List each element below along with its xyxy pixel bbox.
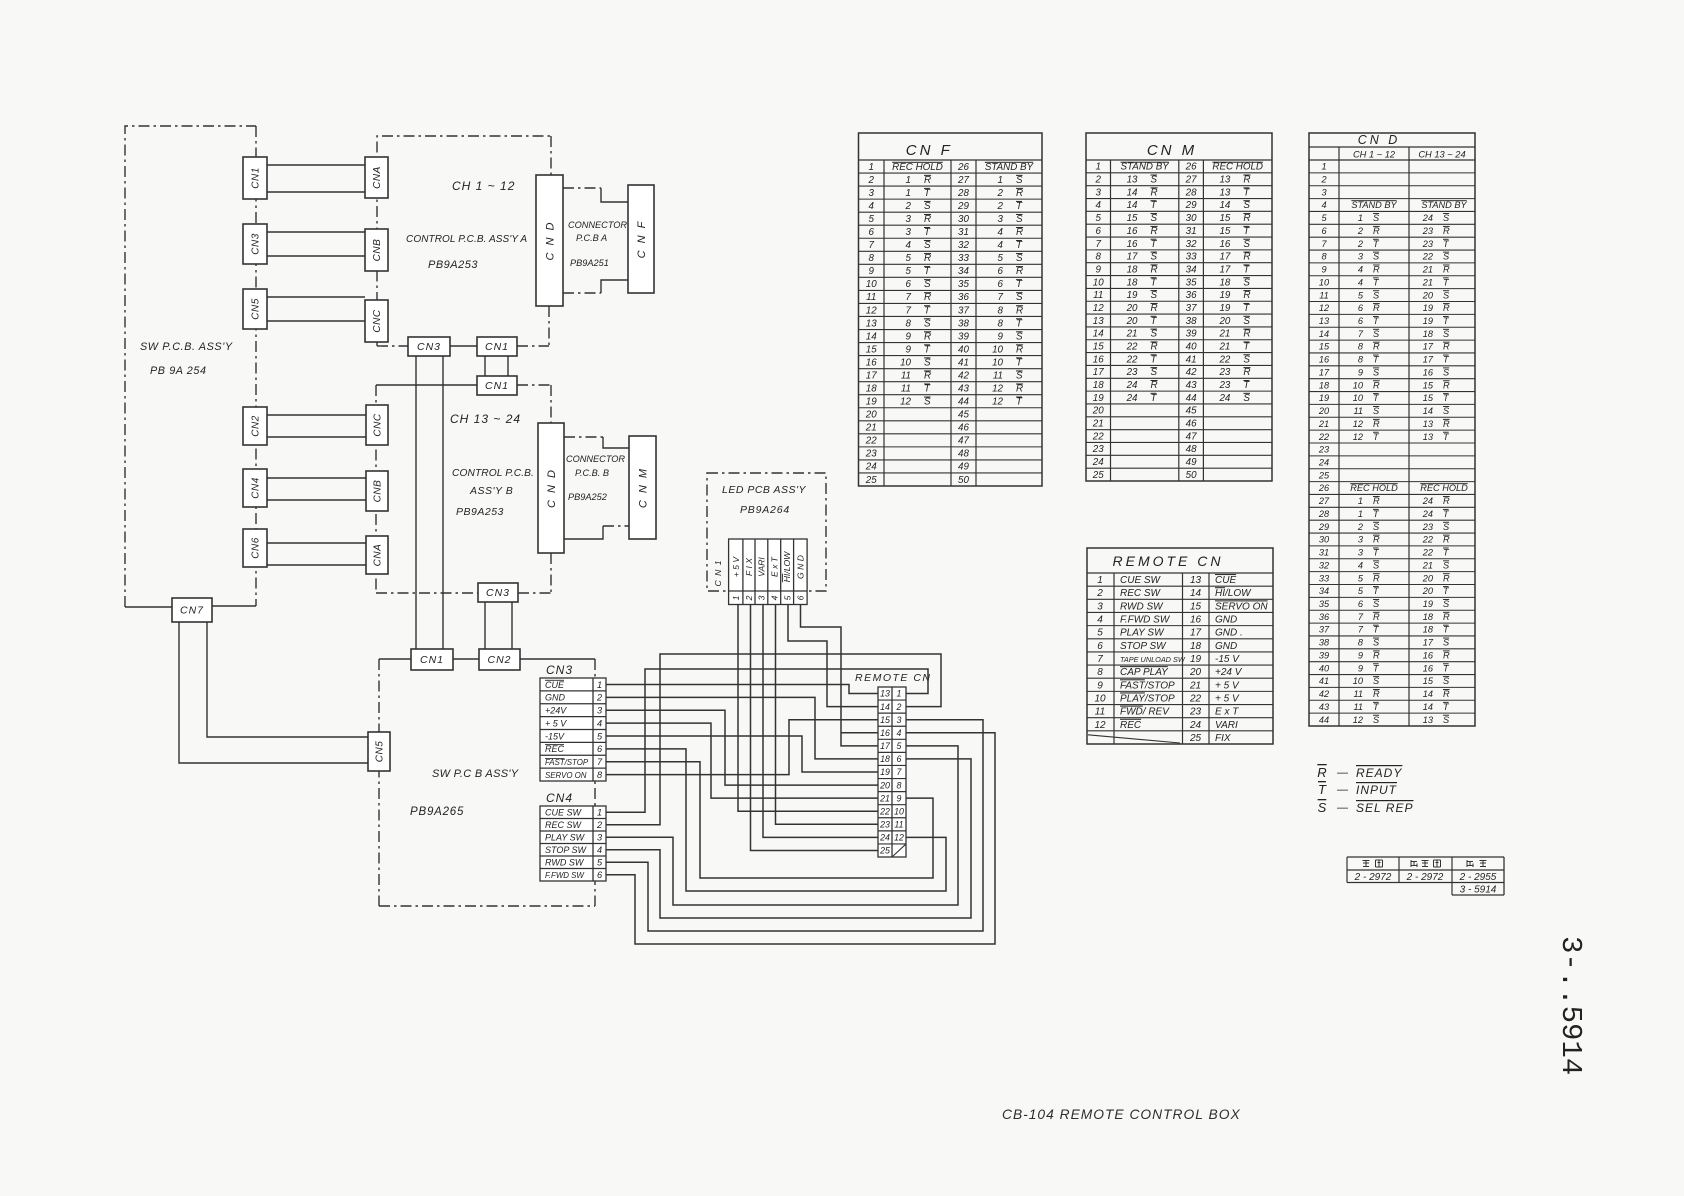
svg-text:24: 24 <box>1189 720 1202 731</box>
svg-text:15: 15 <box>1423 393 1434 403</box>
svg-text:R: R <box>1151 187 1158 198</box>
svg-text:7: 7 <box>1096 239 1102 250</box>
svg-text:17: 17 <box>1423 355 1434 365</box>
svg-text:21: 21 <box>1092 419 1104 430</box>
svg-text:21: 21 <box>1422 277 1433 287</box>
svg-text:7: 7 <box>906 292 912 303</box>
svg-text:6: 6 <box>1096 226 1102 237</box>
svg-text:RWD SW: RWD SW <box>545 858 585 868</box>
svg-text:9: 9 <box>897 793 902 803</box>
svg-text:20: 20 <box>1189 667 1202 678</box>
svg-text:CB-104 REMOTE CONTROL BOX: CB-104 REMOTE CONTROL BOX <box>1002 1107 1241 1122</box>
svg-text:S: S <box>1151 290 1158 301</box>
svg-text:10: 10 <box>1319 277 1330 287</box>
svg-text:C N D: C N D <box>546 468 558 508</box>
svg-text:19: 19 <box>1423 303 1433 313</box>
svg-text:20: 20 <box>1126 316 1138 327</box>
svg-text:12: 12 <box>1094 720 1106 731</box>
svg-text:7: 7 <box>597 757 603 767</box>
svg-text:VARI: VARI <box>756 557 766 577</box>
svg-text:R: R <box>1243 290 1250 301</box>
svg-text:S: S <box>1243 277 1250 288</box>
svg-text:+24V: +24V <box>545 706 567 716</box>
svg-text:12: 12 <box>1353 715 1363 725</box>
svg-text:FIX: FIX <box>1215 733 1231 744</box>
svg-text:17: 17 <box>1423 342 1434 352</box>
svg-text:S: S <box>1373 522 1380 532</box>
svg-text:38: 38 <box>1319 638 1330 648</box>
svg-text:S: S <box>1016 292 1023 303</box>
svg-text:40: 40 <box>1186 341 1197 352</box>
svg-text:S: S <box>1443 213 1450 223</box>
svg-text:R: R <box>1443 496 1450 506</box>
svg-text:STOP SW: STOP SW <box>545 845 588 855</box>
svg-text:STAND BY: STAND BY <box>985 162 1035 173</box>
svg-text:15: 15 <box>1219 226 1230 237</box>
svg-text:6: 6 <box>1358 303 1364 313</box>
svg-text:S: S <box>924 357 931 368</box>
svg-text:R: R <box>1443 612 1450 622</box>
svg-text:S: S <box>1243 200 1250 211</box>
svg-text:9: 9 <box>1358 650 1363 660</box>
svg-text:11: 11 <box>894 820 903 830</box>
svg-text:26: 26 <box>957 162 969 173</box>
svg-text:READY: READY <box>1356 766 1402 780</box>
svg-text:22: 22 <box>1092 431 1104 442</box>
svg-text:R: R <box>1243 329 1250 340</box>
svg-text:13: 13 <box>1093 316 1104 327</box>
svg-text:PB9A265: PB9A265 <box>410 806 464 818</box>
svg-text:CN1: CN1 <box>420 654 444 666</box>
svg-text:E x T: E x T <box>769 556 779 577</box>
svg-text:13: 13 <box>1423 715 1434 725</box>
svg-text:+ 5 V: + 5 V <box>545 718 567 728</box>
svg-text:CNB: CNB <box>373 480 384 503</box>
svg-text:R: R <box>1373 419 1380 429</box>
svg-text:39: 39 <box>1319 650 1329 660</box>
svg-text:14: 14 <box>1127 187 1138 198</box>
svg-text:CN3: CN3 <box>546 663 573 677</box>
svg-text:T: T <box>1243 303 1250 314</box>
svg-text:6: 6 <box>906 279 912 290</box>
svg-text:2 - 2955: 2 - 2955 <box>1459 872 1497 883</box>
svg-text:1: 1 <box>998 175 1003 186</box>
svg-text:9: 9 <box>906 331 912 342</box>
svg-text:4: 4 <box>1358 277 1363 287</box>
svg-text:45: 45 <box>958 410 969 421</box>
svg-text:S: S <box>1016 214 1023 225</box>
svg-text:S: S <box>924 240 931 251</box>
svg-text:CH 13 ~ 24: CH 13 ~ 24 <box>450 412 521 426</box>
svg-text:17: 17 <box>1190 628 1202 639</box>
svg-text:15: 15 <box>1423 380 1434 390</box>
svg-text:5: 5 <box>906 266 912 277</box>
svg-text:36: 36 <box>1319 612 1330 622</box>
svg-text:6: 6 <box>897 754 902 764</box>
svg-text:R: R <box>1373 342 1380 352</box>
svg-text:+ 5 V: + 5 V <box>731 556 741 578</box>
svg-text:R: R <box>1151 226 1158 237</box>
svg-text:34: 34 <box>1319 586 1329 596</box>
svg-text:18: 18 <box>1127 277 1138 288</box>
svg-text:REC HOLD: REC HOLD <box>1420 483 1468 493</box>
svg-text:3: 3 <box>1358 535 1364 545</box>
svg-text:12: 12 <box>866 305 877 316</box>
svg-text:11: 11 <box>1353 689 1363 699</box>
svg-text:37: 37 <box>1319 625 1330 635</box>
svg-text:14: 14 <box>1423 702 1433 712</box>
svg-text:30: 30 <box>1319 535 1330 545</box>
svg-text:S: S <box>1373 676 1380 686</box>
svg-text:18: 18 <box>1319 380 1330 390</box>
svg-text:+ 5 V: + 5 V <box>1215 693 1240 704</box>
svg-text:6: 6 <box>869 227 875 238</box>
svg-text:21: 21 <box>1218 329 1230 340</box>
svg-text:4: 4 <box>998 227 1004 238</box>
svg-text:S: S <box>1318 800 1327 815</box>
svg-text:21: 21 <box>879 793 890 803</box>
svg-text:12: 12 <box>992 397 1003 408</box>
svg-text:20: 20 <box>1422 290 1434 300</box>
svg-text:R: R <box>1243 252 1250 263</box>
svg-text:S: S <box>1151 213 1158 224</box>
svg-text:S: S <box>1373 406 1380 416</box>
svg-text:T: T <box>1151 316 1158 327</box>
svg-text:1: 1 <box>1358 496 1363 506</box>
svg-text:C N M: C N M <box>638 467 650 508</box>
svg-text:VARI: VARI <box>1215 720 1238 731</box>
svg-text:T: T <box>1151 239 1158 250</box>
svg-text:14: 14 <box>866 331 877 342</box>
svg-text:STAND BY: STAND BY <box>1421 200 1467 210</box>
svg-text:2 - 2972: 2 - 2972 <box>1406 872 1444 883</box>
svg-text:PB9A253: PB9A253 <box>456 506 504 518</box>
svg-text:REC SW: REC SW <box>1120 588 1162 599</box>
svg-text:3: 3 <box>597 706 603 716</box>
svg-text:9: 9 <box>869 266 875 277</box>
svg-text:10: 10 <box>894 806 904 816</box>
svg-text:1: 1 <box>1097 575 1103 586</box>
svg-text:S: S <box>1373 599 1380 609</box>
svg-text:3: 3 <box>869 188 875 199</box>
svg-text:S: S <box>1373 715 1380 725</box>
svg-text:10: 10 <box>866 279 877 290</box>
svg-text:CNC: CNC <box>373 413 384 436</box>
svg-text:18: 18 <box>1423 625 1434 635</box>
svg-text:35: 35 <box>1319 599 1330 609</box>
svg-text:19: 19 <box>1423 316 1433 326</box>
svg-text:T: T <box>1016 240 1023 251</box>
svg-text:29: 29 <box>957 201 969 212</box>
svg-text:1: 1 <box>906 175 911 186</box>
svg-text:CH 1 ~ 12: CH 1 ~ 12 <box>452 179 515 193</box>
svg-text:R: R <box>1373 650 1380 660</box>
svg-text:R: R <box>1443 342 1450 352</box>
svg-text:CN4: CN4 <box>546 791 573 805</box>
svg-text:22: 22 <box>1422 535 1433 545</box>
svg-text:7: 7 <box>1358 612 1364 622</box>
svg-text:T: T <box>924 227 931 238</box>
svg-text:8: 8 <box>1358 342 1364 352</box>
svg-text:23: 23 <box>1422 522 1434 532</box>
svg-text:42: 42 <box>958 370 969 381</box>
svg-text:9: 9 <box>906 344 912 355</box>
svg-text:41: 41 <box>958 357 969 368</box>
svg-text:SW P.C.B. ASS'Y: SW P.C.B. ASS'Y <box>140 341 233 353</box>
svg-text:22: 22 <box>1422 548 1433 558</box>
svg-text:R: R <box>1443 535 1450 545</box>
svg-text:38: 38 <box>1186 316 1197 327</box>
svg-text:16: 16 <box>1093 354 1104 365</box>
svg-text:20: 20 <box>1218 316 1230 327</box>
svg-text:1: 1 <box>1321 162 1326 172</box>
svg-text:R: R <box>1443 650 1450 660</box>
svg-text:R: R <box>1373 380 1380 390</box>
svg-text:T: T <box>1016 357 1023 368</box>
svg-text:41: 41 <box>1319 676 1329 686</box>
svg-text:12: 12 <box>1353 432 1363 442</box>
svg-text:21: 21 <box>1126 329 1138 340</box>
svg-text:17: 17 <box>866 370 877 381</box>
svg-text:+ 5 V: + 5 V <box>1215 680 1240 691</box>
svg-text:1: 1 <box>1358 509 1363 519</box>
svg-text:13: 13 <box>1127 175 1138 186</box>
svg-text:4: 4 <box>597 845 602 855</box>
svg-text:50: 50 <box>1186 470 1197 481</box>
svg-text:T: T <box>924 384 931 395</box>
svg-text:6: 6 <box>998 279 1004 290</box>
svg-text:40: 40 <box>1319 663 1330 673</box>
svg-text:25: 25 <box>1092 470 1104 481</box>
svg-text:39: 39 <box>1186 329 1197 340</box>
svg-text:3: 3 <box>1096 187 1102 198</box>
svg-text:16: 16 <box>866 357 877 368</box>
svg-text:8: 8 <box>1358 638 1364 648</box>
svg-text:S: S <box>1243 354 1250 365</box>
svg-text:TAPE UNLOAD SW: TAPE UNLOAD SW <box>1120 655 1186 664</box>
svg-text:CNC: CNC <box>372 309 383 332</box>
svg-text:2: 2 <box>868 175 875 186</box>
svg-text:2: 2 <box>1095 175 1102 186</box>
svg-text:T: T <box>1151 200 1158 211</box>
svg-text:3: 3 <box>906 214 912 225</box>
svg-text:16: 16 <box>1219 239 1230 250</box>
svg-text:7: 7 <box>1358 625 1364 635</box>
svg-text:25: 25 <box>879 846 890 856</box>
svg-text:GND: GND <box>545 693 566 703</box>
svg-text:4: 4 <box>998 240 1004 251</box>
svg-text:3 - 5914: 3 - 5914 <box>1460 885 1497 896</box>
svg-text:20: 20 <box>1092 406 1104 417</box>
svg-text:4: 4 <box>769 595 779 600</box>
svg-text:49: 49 <box>1186 457 1197 468</box>
svg-text:S: S <box>1151 175 1158 186</box>
svg-text:2: 2 <box>744 595 754 601</box>
svg-text:47: 47 <box>958 436 969 447</box>
svg-text:4: 4 <box>1097 615 1103 626</box>
svg-text:R: R <box>1373 496 1380 506</box>
svg-text:S: S <box>1443 252 1450 262</box>
svg-text:5: 5 <box>906 253 912 264</box>
svg-text:19: 19 <box>1190 654 1202 665</box>
svg-text:R: R <box>1373 226 1380 236</box>
svg-text:P.C.B. B: P.C.B. B <box>575 468 609 478</box>
svg-text:R: R <box>1016 227 1023 238</box>
svg-text:6: 6 <box>1097 641 1103 652</box>
svg-text:R: R <box>1151 380 1158 391</box>
svg-text:CUE SW: CUE SW <box>1120 575 1162 586</box>
svg-text:13: 13 <box>1219 187 1230 198</box>
svg-text:R: R <box>1373 265 1380 275</box>
svg-text:S: S <box>1443 560 1450 570</box>
svg-text:CH 13 ~ 24: CH 13 ~ 24 <box>1418 150 1465 160</box>
svg-text:23: 23 <box>1218 380 1230 391</box>
svg-text:43: 43 <box>1186 380 1197 391</box>
svg-text:CNB: CNB <box>372 239 383 262</box>
svg-text:PB9A252: PB9A252 <box>568 492 607 502</box>
svg-text:15: 15 <box>880 715 890 725</box>
svg-text:5: 5 <box>1358 586 1364 596</box>
svg-text:35: 35 <box>958 279 969 290</box>
svg-text:15: 15 <box>1319 342 1330 352</box>
svg-text:CN3: CN3 <box>486 587 510 599</box>
svg-text:9: 9 <box>1358 663 1363 673</box>
svg-text:E x T: E x T <box>1215 707 1239 718</box>
svg-text:9: 9 <box>1096 264 1102 275</box>
svg-text:17: 17 <box>1219 252 1230 263</box>
svg-text:11: 11 <box>1093 290 1103 301</box>
svg-text:31: 31 <box>1319 548 1329 558</box>
svg-text:23: 23 <box>1092 444 1104 455</box>
svg-text:8: 8 <box>998 305 1004 316</box>
svg-text:S: S <box>1443 676 1450 686</box>
svg-text:12: 12 <box>894 833 904 843</box>
svg-text:29: 29 <box>1318 522 1329 532</box>
svg-text:R: R <box>1016 305 1023 316</box>
svg-text:2: 2 <box>997 188 1004 199</box>
svg-text:19: 19 <box>880 767 890 777</box>
svg-text:6: 6 <box>1321 226 1327 236</box>
svg-text:C N D: C N D <box>545 221 557 261</box>
svg-text:44: 44 <box>958 397 969 408</box>
svg-text:21: 21 <box>1218 341 1230 352</box>
svg-text:13: 13 <box>1190 575 1202 586</box>
svg-text:32: 32 <box>1319 560 1329 570</box>
svg-text:T: T <box>1243 341 1250 352</box>
svg-text:CN3: CN3 <box>251 233 262 255</box>
svg-text:8: 8 <box>906 318 912 329</box>
svg-text:FWD/ REV: FWD/ REV <box>1120 707 1170 718</box>
svg-text:31: 31 <box>1186 226 1197 237</box>
svg-text:STAND BY: STAND BY <box>1351 200 1397 210</box>
svg-text:4: 4 <box>597 718 602 728</box>
svg-text:CH 1 ~ 12: CH 1 ~ 12 <box>1353 150 1396 160</box>
svg-text:5: 5 <box>782 595 792 600</box>
svg-text:18: 18 <box>1127 264 1138 275</box>
svg-text:REC HOLD: REC HOLD <box>1350 483 1398 493</box>
svg-text:19: 19 <box>1423 599 1433 609</box>
svg-text:R: R <box>1373 535 1380 545</box>
svg-text:2: 2 <box>1096 588 1103 599</box>
svg-text:3: 3 <box>1358 548 1364 558</box>
svg-text:28: 28 <box>1318 509 1330 519</box>
svg-text:48: 48 <box>958 449 969 460</box>
svg-text:R: R <box>1373 689 1380 699</box>
svg-text:12: 12 <box>1319 303 1329 313</box>
svg-text:5: 5 <box>597 858 603 868</box>
svg-text:R: R <box>1443 419 1450 429</box>
svg-text:12: 12 <box>900 397 911 408</box>
svg-text:13: 13 <box>1423 419 1434 429</box>
svg-text:22: 22 <box>1218 354 1230 365</box>
svg-text:24: 24 <box>1092 457 1104 468</box>
svg-text:2: 2 <box>905 201 912 212</box>
svg-text:23: 23 <box>1126 367 1138 378</box>
svg-text:3-..5914: 3-..5914 <box>1554 936 1587 1075</box>
svg-text:GND: GND <box>1215 615 1237 626</box>
svg-text:19: 19 <box>866 397 877 408</box>
svg-text:T: T <box>1318 782 1327 797</box>
svg-text:S: S <box>924 318 931 329</box>
svg-text:14: 14 <box>1423 689 1433 699</box>
svg-text:CN1: CN1 <box>251 167 262 189</box>
svg-text:C N F: C N F <box>636 220 648 259</box>
svg-text:10: 10 <box>992 357 1003 368</box>
svg-text:14: 14 <box>1319 329 1329 339</box>
svg-text:17: 17 <box>1319 367 1330 377</box>
svg-text:3: 3 <box>1358 252 1364 262</box>
svg-text:11: 11 <box>993 370 1003 381</box>
svg-text:T: T <box>924 266 931 277</box>
svg-text:15: 15 <box>1127 213 1138 224</box>
svg-text:5: 5 <box>1358 573 1364 583</box>
svg-text:24: 24 <box>865 462 877 473</box>
svg-text:PLAY SW: PLAY SW <box>545 833 586 843</box>
svg-text:T: T <box>1151 277 1158 288</box>
svg-text:14: 14 <box>880 702 890 712</box>
svg-text:43: 43 <box>958 384 969 395</box>
svg-text:40: 40 <box>958 344 969 355</box>
svg-text:2: 2 <box>896 702 902 712</box>
svg-text:S: S <box>1443 638 1450 648</box>
svg-text:4: 4 <box>1321 200 1326 210</box>
svg-text:CNA: CNA <box>373 544 384 567</box>
svg-text:30: 30 <box>1186 213 1197 224</box>
svg-text:32: 32 <box>1186 239 1197 250</box>
svg-text:C N 1: C N 1 <box>713 560 723 587</box>
svg-text:CNA: CNA <box>372 166 383 189</box>
svg-text:23: 23 <box>1318 445 1330 455</box>
svg-text:+24 V: +24 V <box>1215 667 1243 678</box>
svg-text:T: T <box>1151 393 1158 404</box>
svg-text:6: 6 <box>1358 316 1364 326</box>
svg-text:LED PCB ASS'Y: LED PCB ASS'Y <box>722 484 806 496</box>
svg-text:—: — <box>1336 784 1349 796</box>
svg-text:24: 24 <box>1422 509 1433 519</box>
svg-text:3: 3 <box>897 715 902 725</box>
svg-text:5: 5 <box>1096 213 1102 224</box>
svg-text:T: T <box>1016 279 1023 290</box>
svg-text:17: 17 <box>880 741 891 751</box>
svg-text:REC SW: REC SW <box>545 820 583 830</box>
svg-text:CN D: CN D <box>1358 133 1401 147</box>
svg-text:24: 24 <box>1218 393 1230 404</box>
svg-text:11: 11 <box>1353 702 1363 712</box>
svg-text:21: 21 <box>1318 419 1329 429</box>
svg-text:HI/LOW: HI/LOW <box>782 551 792 582</box>
svg-text:R: R <box>924 214 931 225</box>
svg-text:CN4: CN4 <box>251 477 262 499</box>
